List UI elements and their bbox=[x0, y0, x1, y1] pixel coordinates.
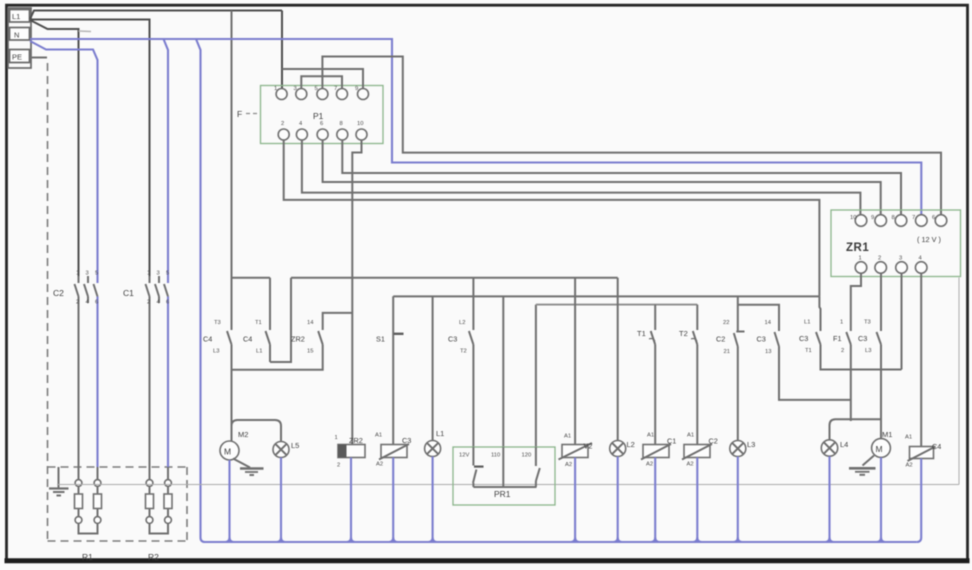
neutral drop L4 bbox=[828, 456, 830, 542]
F dash bbox=[246, 113, 258, 115]
svg-text:A1: A1 bbox=[905, 435, 912, 441]
PR1 right contact bbox=[536, 447, 540, 487]
svg-text:6: 6 bbox=[932, 215, 935, 221]
neutral drop L1 bbox=[432, 457, 434, 543]
P1 pin 3 bbox=[296, 89, 307, 100]
svg-text:M1: M1 bbox=[882, 430, 892, 439]
svg-text:C2: C2 bbox=[716, 335, 725, 344]
wire ZR1 pin3 drop bbox=[901, 273, 903, 369]
wire P1 pin6 to ZR1 pin2 bbox=[323, 140, 881, 215]
wire L1 to C1 pole bbox=[30, 20, 150, 277]
thin panel boundary horizontal bbox=[57, 484, 959, 486]
svg-text:T1: T1 bbox=[805, 348, 812, 354]
contactor C1 bbox=[123, 271, 169, 480]
svg-text:C3: C3 bbox=[448, 335, 457, 344]
svg-text:PE: PE bbox=[12, 53, 22, 62]
svg-text:C2: C2 bbox=[709, 437, 718, 446]
R2 right body bbox=[164, 494, 172, 509]
wire V2 riser bbox=[574, 278, 576, 445]
svg-text:C2: C2 bbox=[53, 288, 64, 298]
svg-text:M: M bbox=[224, 447, 231, 457]
wire N blue bus to ZR1 pin4 bbox=[30, 39, 921, 215]
R2 left terminal top bbox=[146, 480, 153, 487]
wire M2 feed from top bus bbox=[231, 11, 233, 331]
dashed resistor box right bbox=[186, 467, 188, 541]
svg-text:8: 8 bbox=[340, 121, 343, 127]
ZR1 top pin 6 bbox=[935, 215, 947, 227]
neutral drop C4 bbox=[917, 459, 922, 543]
thin panel boundary right edge bbox=[958, 278, 960, 485]
svg-text:9: 9 bbox=[355, 86, 358, 92]
svg-text:2: 2 bbox=[337, 463, 340, 469]
svg-text:10: 10 bbox=[357, 121, 363, 127]
P1 pin 9 bbox=[358, 89, 369, 100]
svg-text:M: M bbox=[876, 444, 883, 454]
svg-text:ZR1: ZR1 bbox=[846, 242, 869, 254]
svg-text:1: 1 bbox=[274, 86, 277, 92]
lamp L3 bbox=[730, 440, 756, 457]
coil C3 bbox=[375, 433, 411, 468]
wire N branch long neutral drop bbox=[196, 39, 205, 542]
C1 pole2 bbox=[158, 276, 160, 283]
P1 pin 6 bbox=[317, 129, 328, 140]
svg-text:1: 1 bbox=[147, 271, 150, 277]
svg-text:L1: L1 bbox=[804, 320, 810, 326]
svg-text:110: 110 bbox=[491, 453, 500, 459]
svg-text:ZR2: ZR2 bbox=[349, 436, 363, 445]
motor M2 bbox=[220, 430, 248, 460]
motor M1 bbox=[872, 430, 893, 457]
svg-text:T3: T3 bbox=[864, 320, 871, 326]
svg-text:13: 13 bbox=[765, 349, 771, 355]
wire M2 L5 elbow bbox=[232, 420, 282, 442]
neutral drop L5 bbox=[280, 458, 282, 543]
svg-text:7: 7 bbox=[334, 86, 337, 92]
lamp L4 bbox=[821, 440, 848, 456]
svg-text:( 12 V ): ( 12 V ) bbox=[917, 235, 941, 244]
P1 pin 8 bbox=[337, 129, 348, 140]
resistor group R2 bbox=[146, 480, 173, 562]
dashed PE earth line bbox=[47, 63, 49, 541]
svg-text:1: 1 bbox=[859, 256, 862, 262]
wire PR1 110 feed bbox=[502, 296, 504, 447]
svg-text:4: 4 bbox=[299, 121, 303, 127]
PR1 middle stub bbox=[502, 447, 504, 487]
svg-text:V2: V2 bbox=[584, 442, 593, 451]
svg-text:T3: T3 bbox=[214, 320, 221, 326]
neutral drop L2 bbox=[617, 457, 619, 543]
switch S1 bbox=[376, 296, 404, 444]
wire L1 to C2 pole bbox=[30, 20, 79, 276]
svg-text:2: 2 bbox=[76, 300, 79, 306]
relay module ZR1 bbox=[831, 210, 961, 277]
wire top feed bus row bbox=[232, 277, 271, 279]
svg-text:1: 1 bbox=[335, 435, 338, 441]
svg-text:C1: C1 bbox=[123, 288, 134, 298]
lamp L5 bbox=[273, 441, 299, 458]
dashed resistor box bottom bbox=[48, 540, 188, 542]
svg-text:C4: C4 bbox=[932, 442, 941, 451]
svg-text:L3: L3 bbox=[213, 349, 219, 355]
ZR1 top pin 9 bbox=[875, 215, 887, 227]
svg-text:10: 10 bbox=[850, 215, 856, 221]
svg-text:8: 8 bbox=[892, 215, 895, 221]
wire P1 pin2 to bus node bbox=[284, 140, 820, 296]
R1 right terminal top bbox=[94, 480, 101, 487]
ZR1 top pin 8 bbox=[895, 215, 907, 227]
R1 right body bbox=[94, 494, 102, 509]
svg-text:N: N bbox=[14, 31, 19, 40]
neutral drop C3 coil bbox=[392, 458, 394, 543]
svg-text:5: 5 bbox=[95, 271, 98, 277]
svg-text:3: 3 bbox=[899, 256, 902, 262]
svg-text:A1: A1 bbox=[564, 434, 571, 440]
contact C3 L1/T1 bbox=[799, 296, 902, 369]
wire L1 fan to top bus bbox=[30, 11, 282, 20]
svg-text:2: 2 bbox=[147, 300, 150, 306]
PR1 left contact bbox=[473, 447, 484, 487]
svg-text:L1: L1 bbox=[436, 429, 444, 438]
svg-text:3: 3 bbox=[294, 86, 297, 92]
svg-text:C1: C1 bbox=[667, 437, 676, 446]
svg-text:A2: A2 bbox=[687, 462, 694, 468]
svg-text:A1: A1 bbox=[375, 433, 382, 439]
svg-text:A2: A2 bbox=[565, 462, 572, 468]
coil C2 bbox=[682, 433, 718, 468]
wire L2 lamp drop bbox=[617, 278, 619, 441]
contact C3 T3/L3 bbox=[858, 273, 881, 438]
svg-text:1: 1 bbox=[840, 320, 843, 326]
P1 pin 2 bbox=[278, 129, 289, 140]
ZR1 bottom pin 1 bbox=[855, 262, 867, 274]
R2 left terminal bottom bbox=[146, 517, 153, 524]
terminal N bbox=[10, 28, 30, 41]
wire PE stub bbox=[30, 57, 47, 59]
svg-text:2: 2 bbox=[281, 121, 284, 127]
relay coil V2 bbox=[559, 434, 593, 469]
neutral drop L3 bbox=[737, 457, 739, 543]
neutral drop ZR2 bbox=[350, 458, 352, 543]
svg-text:L2: L2 bbox=[459, 320, 465, 326]
svg-text:L4: L4 bbox=[840, 440, 848, 449]
svg-text:S1: S1 bbox=[376, 335, 385, 344]
ZR1 top pin 10 bbox=[855, 215, 867, 227]
wire L4 M1 elbow bbox=[830, 419, 882, 440]
wire P1 pin10 to ZR2 coil bbox=[352, 140, 361, 445]
svg-text:L1: L1 bbox=[256, 349, 262, 355]
contactor C2 bbox=[53, 271, 98, 480]
connector P1 bbox=[261, 86, 384, 144]
P1 pin 7 bbox=[337, 89, 348, 100]
coil C1 bbox=[641, 433, 676, 468]
ground M1 bbox=[849, 456, 876, 475]
svg-text:L3: L3 bbox=[865, 348, 871, 354]
contact ZR2 bbox=[232, 313, 353, 370]
R2 right terminal bottom bbox=[165, 517, 172, 524]
R1 left body bbox=[78, 486, 80, 494]
wire top bus drop to P1 pin1 bbox=[281, 11, 283, 89]
svg-text:15: 15 bbox=[307, 349, 313, 355]
svg-text:2: 2 bbox=[841, 348, 844, 354]
P1 pin 10 bbox=[356, 129, 367, 140]
svg-text:L1: L1 bbox=[12, 12, 20, 21]
contact F1 bbox=[833, 273, 861, 421]
svg-text:14: 14 bbox=[307, 320, 314, 326]
ZR1 bottom pin 3 bbox=[896, 262, 908, 274]
C2 pole3 bbox=[96, 276, 98, 283]
svg-text:T1: T1 bbox=[255, 320, 262, 326]
R1 left terminal top bbox=[75, 480, 82, 487]
neutral drop V2 bbox=[574, 458, 576, 543]
svg-text:A2: A2 bbox=[376, 462, 383, 468]
R1 bottom link bbox=[79, 523, 98, 533]
wire P1 bridge pins 3-7 bbox=[301, 76, 342, 88]
svg-text:6: 6 bbox=[95, 300, 98, 306]
contact T1 bbox=[637, 305, 655, 445]
svg-text:C4: C4 bbox=[203, 335, 212, 344]
wire L1 lamp feed bbox=[432, 296, 434, 440]
svg-text:P1: P1 bbox=[313, 111, 324, 121]
wire ZR1 pin4 to C4 coil bbox=[920, 273, 922, 446]
svg-text:1: 1 bbox=[76, 271, 79, 277]
neutral drop M2 bbox=[228, 460, 230, 542]
svg-text:F1: F1 bbox=[833, 334, 842, 343]
wire faint stub bbox=[79, 30, 92, 33]
svg-text:14: 14 bbox=[765, 320, 772, 326]
svg-text:T2: T2 bbox=[679, 329, 688, 338]
svg-text:A1: A1 bbox=[647, 433, 654, 439]
contact C3 L2/T2 bbox=[448, 278, 473, 447]
contact C4 T3/L3 bbox=[203, 320, 232, 441]
wire P1 pin4 to ZR1 pin1 bbox=[302, 140, 861, 215]
neutral drop C1 bbox=[654, 458, 656, 543]
C2 pole1 bbox=[78, 276, 80, 283]
svg-text:120: 120 bbox=[522, 453, 532, 459]
svg-text:6: 6 bbox=[166, 300, 169, 306]
svg-text:21: 21 bbox=[724, 349, 730, 355]
svg-text:6: 6 bbox=[320, 121, 323, 127]
svg-text:F: F bbox=[237, 109, 242, 119]
P1 pin 1 bbox=[276, 89, 287, 100]
wire P1 pin9 to pin1 riser bbox=[282, 69, 363, 89]
svg-text:R2: R2 bbox=[148, 552, 159, 562]
wire P1 pin5 to ZR1 pin5 bbox=[322, 57, 941, 215]
svg-text:L2: L2 bbox=[627, 440, 635, 449]
wire S1 bus bbox=[393, 295, 819, 297]
R1 right terminal bottom bbox=[94, 517, 101, 524]
coil C4 bbox=[905, 435, 941, 469]
svg-text:3: 3 bbox=[86, 271, 89, 277]
ground at resistor box bbox=[49, 467, 69, 496]
svg-text:3: 3 bbox=[157, 271, 160, 277]
svg-text:C3: C3 bbox=[858, 334, 867, 343]
svg-text:12V: 12V bbox=[459, 453, 469, 459]
P1 pin 4 bbox=[296, 129, 307, 140]
R2 bottom link bbox=[150, 523, 169, 533]
neutral drop M1 bbox=[880, 457, 882, 542]
svg-text:C3: C3 bbox=[799, 334, 808, 343]
terminal L1 bbox=[10, 10, 30, 23]
C2 pole2 bbox=[87, 276, 89, 283]
neutral bus bottom bbox=[205, 541, 917, 543]
R2 right terminal top bbox=[165, 480, 172, 487]
neutral bus fillets bbox=[225, 538, 234, 543]
svg-text:2: 2 bbox=[878, 256, 881, 262]
R1 left terminal bottom bbox=[75, 517, 82, 524]
contact C4 T1/L1 bbox=[243, 278, 270, 362]
svg-text:A2: A2 bbox=[646, 462, 653, 468]
contact T2 bbox=[679, 305, 697, 445]
P1 pin 5 bbox=[317, 89, 328, 100]
terminal block outer bbox=[8, 8, 31, 68]
lamp L2 bbox=[610, 440, 635, 457]
svg-text:5: 5 bbox=[315, 86, 318, 92]
terminal PE bbox=[10, 50, 30, 63]
relay coil ZR2 bbox=[335, 435, 366, 469]
power unit PR1 bbox=[453, 447, 555, 505]
ZR1 bottom pin 4 bbox=[915, 262, 927, 274]
svg-text:L5: L5 bbox=[291, 441, 299, 450]
svg-text:R1: R1 bbox=[82, 552, 93, 562]
ZR1 top pin 7 bbox=[916, 215, 928, 227]
svg-text:M2: M2 bbox=[238, 430, 248, 439]
svg-text:ZR2: ZR2 bbox=[291, 335, 305, 344]
R2 left body bbox=[146, 494, 154, 509]
wire P1 pin8 to ZR1 pin3 bbox=[342, 140, 901, 215]
svg-text:PR1: PR1 bbox=[494, 489, 511, 499]
svg-text:A1: A1 bbox=[687, 433, 694, 439]
ground M2 bbox=[233, 459, 264, 476]
C1 pole3 bbox=[167, 276, 169, 283]
svg-text:A2: A2 bbox=[906, 463, 913, 469]
svg-text:C3: C3 bbox=[402, 436, 411, 445]
svg-text:L3: L3 bbox=[747, 440, 755, 449]
svg-text:9: 9 bbox=[871, 215, 874, 221]
svg-text:5: 5 bbox=[166, 271, 169, 277]
wire PR1 120 riser bbox=[535, 305, 537, 447]
svg-text:7: 7 bbox=[912, 215, 915, 221]
neutral drop C2 bbox=[696, 458, 698, 543]
contact C2 21/22 bbox=[716, 296, 745, 440]
svg-text:T2: T2 bbox=[460, 349, 467, 355]
svg-text:4: 4 bbox=[919, 256, 923, 262]
wire N branch to C1 pole bbox=[164, 39, 169, 276]
svg-text:C3: C3 bbox=[757, 335, 766, 344]
ZR1 bottom pin 2 bbox=[875, 262, 887, 274]
wire main bus row y277 bbox=[291, 277, 618, 279]
resistor group R1 bbox=[75, 480, 102, 562]
dashed resistor box top bbox=[48, 466, 188, 468]
svg-text:C4: C4 bbox=[243, 335, 252, 344]
wire contact U-link bbox=[270, 278, 291, 362]
C1 pole1 bbox=[149, 276, 151, 283]
PR1 common bar bbox=[473, 486, 536, 488]
svg-text:22: 22 bbox=[723, 320, 729, 326]
contact C3 13/14 bbox=[738, 305, 851, 400]
lamp L1 bbox=[425, 429, 445, 457]
wire N branch to C2 pole bbox=[30, 41, 98, 276]
bottom border bar bbox=[5, 558, 970, 563]
svg-text:T1: T1 bbox=[637, 329, 646, 338]
